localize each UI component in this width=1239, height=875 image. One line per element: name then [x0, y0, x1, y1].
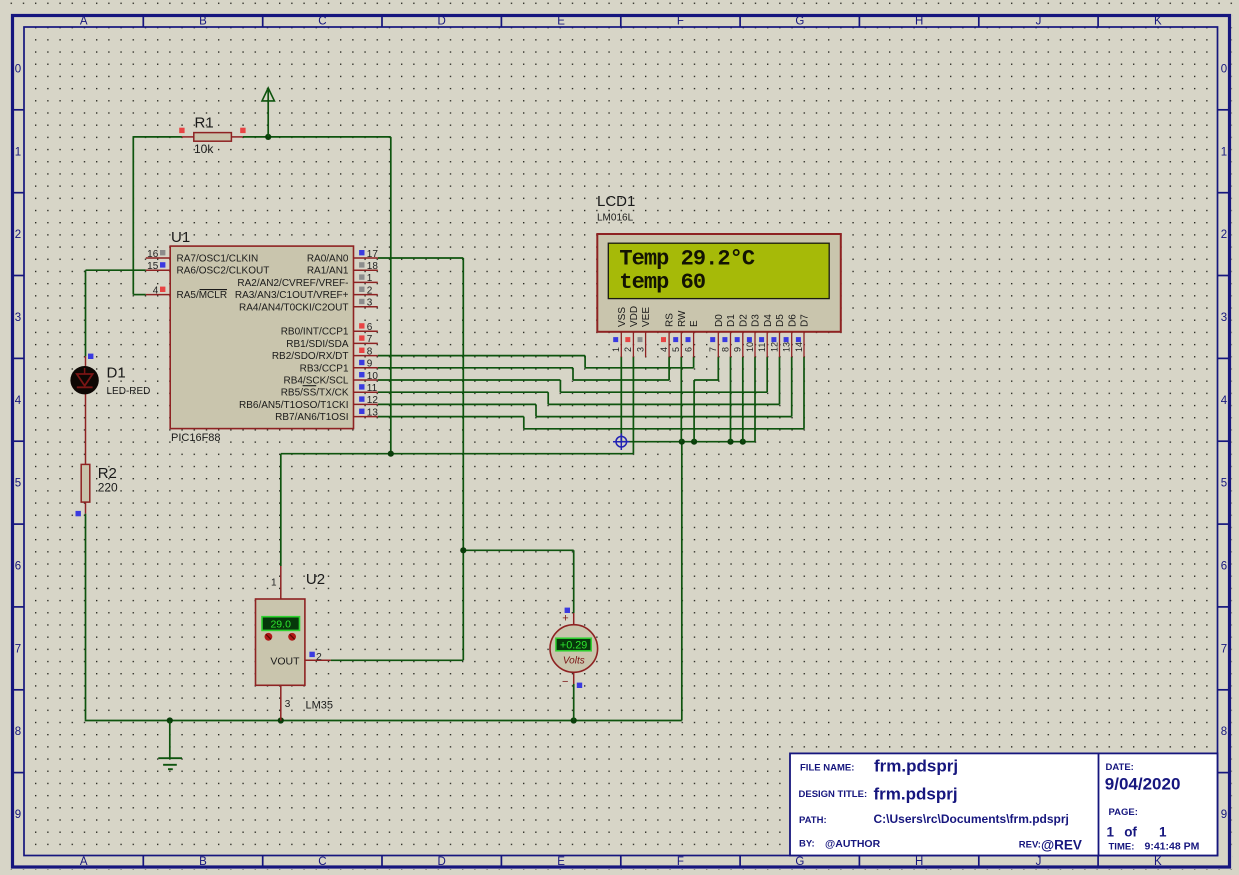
svg-text:1: 1 [367, 273, 373, 284]
svg-text:G: G [795, 856, 804, 868]
wire LCD D2 down [742, 357, 744, 442]
svg-text:6: 6 [683, 347, 693, 352]
svg-text:+: + [562, 613, 568, 625]
svg-text:FILE NAME:: FILE NAME: [800, 763, 854, 774]
svg-text:1: 1 [1159, 825, 1167, 840]
U2 pin 1 [271, 566, 281, 599]
LCD1 pin 12 D5 [769, 314, 786, 357]
wire R1 right to +5V rail corner [243, 136, 391, 138]
LCD1 pin 4 RS [659, 313, 676, 357]
U1 pin 17 [354, 249, 379, 260]
svg-text:220: 220 [98, 481, 118, 495]
svg-text:frm.pdsprj: frm.pdsprj [874, 785, 958, 804]
svg-text:B: B [199, 856, 207, 868]
U1 pin 7 [354, 334, 378, 345]
LCD1 pin 10 D3 [745, 314, 762, 357]
wire RB7 to LCD D7 [378, 357, 804, 429]
junction RA0 split to voltmeter [460, 547, 466, 553]
junction ground rail at U2 pin3 [278, 717, 284, 723]
junction power node at R1/power-pin [265, 134, 271, 140]
microcontroller U1 body [170, 246, 353, 429]
svg-text:4: 4 [153, 285, 159, 296]
svg-text:15: 15 [147, 261, 159, 272]
svg-text:10: 10 [367, 371, 379, 382]
svg-text:LM016L: LM016L [597, 213, 634, 224]
svg-text:C: C [318, 856, 326, 868]
junction LCD rail at RW riser [679, 439, 685, 445]
svg-text:D6: D6 [787, 314, 798, 327]
svg-text:9: 9 [1221, 809, 1227, 821]
svg-text:5: 5 [671, 347, 681, 352]
svg-text:8: 8 [367, 346, 373, 357]
svg-text:RB0/INT/CCP1: RB0/INT/CCP1 [281, 327, 349, 338]
svg-text:J: J [1036, 856, 1042, 868]
svg-text:B: B [199, 16, 207, 28]
svg-text:RA6/OSC2/CLKOUT: RA6/OSC2/CLKOUT [177, 266, 270, 277]
wire RA6 to D1 [86, 270, 146, 356]
svg-text:D: D [438, 856, 446, 868]
svg-text:8: 8 [720, 347, 730, 352]
ground symbol [158, 721, 182, 770]
svg-text:RA3/AN3/C1OUT/VREF+: RA3/AN3/C1OUT/VREF+ [235, 290, 349, 301]
svg-text:VEE: VEE [641, 307, 652, 327]
svg-text:VDD: VDD [629, 306, 640, 327]
svg-text:RA1/AN1: RA1/AN1 [307, 266, 349, 277]
wire voltmeter minus to ground rail [573, 684, 575, 721]
svg-text:frm.pdsprj: frm.pdsprj [874, 757, 958, 776]
svg-text:A: A [80, 856, 88, 868]
svg-text:RW: RW [677, 310, 688, 327]
svg-text:LED-RED: LED-RED [107, 386, 151, 397]
LCD1 pin 9 D2 [733, 314, 750, 357]
svg-text:11: 11 [367, 383, 378, 394]
svg-text:RB6/AN5/T1OSO/T1CKI: RB6/AN5/T1OSO/T1CKI [239, 400, 348, 411]
svg-text:D5: D5 [775, 314, 786, 327]
svg-text:RA5/MCLR: RA5/MCLR [177, 290, 228, 301]
U1 pin 3 [354, 298, 378, 309]
svg-text:4: 4 [659, 347, 669, 352]
svg-text:6: 6 [1221, 561, 1227, 573]
svg-text:R1: R1 [195, 115, 214, 132]
svg-text:RB7/AN6/T1OSI: RB7/AN6/T1OSI [275, 412, 348, 423]
svg-text:8: 8 [15, 726, 21, 738]
voltmeter probe [550, 608, 598, 688]
svg-text:LCD1: LCD1 [597, 193, 635, 210]
svg-text:1: 1 [1221, 146, 1227, 158]
svg-text:1: 1 [15, 146, 21, 158]
svg-text:12: 12 [367, 395, 379, 406]
svg-text:K: K [1154, 856, 1162, 868]
svg-text:D1: D1 [726, 314, 737, 327]
U1 pin 11 [354, 383, 378, 394]
svg-text:R2: R2 [98, 465, 117, 482]
U2 pin 3 [281, 685, 291, 720]
svg-text:2: 2 [367, 285, 373, 296]
svg-text:of: of [1124, 825, 1137, 840]
LCD1 pin 11 D4 [757, 314, 774, 357]
svg-text:1: 1 [1107, 825, 1115, 840]
wire RB3 to LCD RS [378, 357, 669, 380]
svg-text:DATE:: DATE: [1106, 762, 1134, 773]
U1 pin 9 [354, 359, 378, 370]
svg-text:F: F [677, 856, 684, 868]
svg-text:VOUT: VOUT [270, 655, 300, 667]
svg-text:D4: D4 [763, 314, 774, 327]
svg-text:RS: RS [665, 313, 676, 327]
svg-text:REV:: REV: [1019, 840, 1041, 851]
junction LCD rail at D1 [727, 439, 733, 445]
svg-text:18: 18 [367, 261, 379, 272]
svg-text:5: 5 [15, 478, 21, 490]
svg-text:9: 9 [733, 347, 743, 352]
svg-text:C:\Users\rc\Documents\frm.pdsp: C:\Users\rc\Documents\frm.pdsprj [874, 812, 1069, 826]
svg-text:9:41:48 PM: 9:41:48 PM [1145, 841, 1200, 853]
svg-text:+0.29: +0.29 [560, 639, 587, 651]
LCD1 pin 5 RW [671, 310, 688, 357]
LCD1 pin 7 D0 [708, 314, 725, 357]
svg-text:RB5/SS/TX/CK: RB5/SS/TX/CK [281, 388, 349, 399]
LCD1 pin 14 D7 [794, 314, 811, 357]
U1 pin names left side [177, 254, 270, 302]
resistor R2 [76, 394, 90, 516]
wire ground riser to LCD rail [681, 442, 683, 721]
LCD1 pin 3 VEE [635, 307, 652, 358]
svg-text:RA2/AN2/CVREF/VREF-: RA2/AN2/CVREF/VREF- [237, 278, 348, 289]
svg-text:2: 2 [1221, 229, 1227, 241]
U1 pin 6 [354, 322, 378, 333]
wire RA0 to LM35 VOUT and voltmeter [331, 258, 574, 660]
svg-text:2: 2 [316, 651, 322, 663]
svg-text:3: 3 [367, 298, 373, 309]
svg-text:C: C [318, 16, 326, 28]
svg-text:17: 17 [367, 249, 379, 260]
svg-text:6: 6 [367, 322, 373, 333]
svg-text:DESIGN TITLE:: DESIGN TITLE: [799, 789, 868, 800]
svg-text:PIC16F88: PIC16F88 [171, 432, 221, 444]
svg-text:BY:: BY: [799, 839, 815, 850]
LCD display LCD1 body [597, 234, 841, 332]
svg-text:PAGE:: PAGE: [1109, 807, 1138, 818]
U1 pin 13 [354, 407, 379, 418]
svg-text:16: 16 [147, 249, 159, 260]
svg-text:10k: 10k [194, 142, 214, 156]
junction ground rail at voltmeter [571, 717, 577, 723]
svg-text:F: F [677, 16, 684, 28]
junction ground rail at GND symbol [167, 717, 173, 723]
svg-text:D: D [438, 16, 446, 28]
svg-text:8: 8 [1221, 726, 1227, 738]
svg-text:6: 6 [15, 561, 21, 573]
svg-text:LM35: LM35 [306, 700, 334, 712]
svg-text:D3: D3 [751, 314, 762, 327]
LCD1 pin 8 D1 [720, 314, 737, 357]
LCD1 pin 1 VSS [611, 307, 628, 358]
resistor R1 [179, 128, 245, 142]
svg-text:4: 4 [1221, 395, 1228, 407]
wire RB2 to LCD E [378, 356, 694, 368]
svg-text:13: 13 [782, 342, 792, 352]
svg-text:3: 3 [15, 312, 21, 324]
wire RB5 to LCD D5 [378, 357, 780, 405]
svg-text:U2: U2 [306, 571, 325, 588]
svg-text:2: 2 [623, 347, 633, 352]
wire LCD D0 to ground rail [694, 357, 719, 442]
svg-text:K: K [1154, 16, 1162, 28]
svg-text:7: 7 [708, 347, 718, 352]
svg-text:RB3/CCP1: RB3/CCP1 [300, 363, 349, 374]
svg-text:temp 60: temp 60 [619, 270, 705, 295]
U1 pin 12 [354, 395, 379, 406]
svg-text:1: 1 [611, 347, 621, 352]
svg-text:7: 7 [367, 334, 373, 345]
svg-text:0: 0 [1221, 63, 1227, 75]
svg-text:D2: D2 [738, 314, 749, 327]
svg-text:0: 0 [15, 63, 21, 75]
svg-text:H: H [915, 16, 923, 28]
svg-text:RB4/SCK/SCL: RB4/SCK/SCL [283, 376, 348, 387]
svg-text:9/04/2020: 9/04/2020 [1105, 775, 1181, 794]
svg-text:PATH:: PATH: [799, 815, 827, 826]
wire RB4 to LCD D4 [378, 357, 767, 393]
LCD1 pin 13 D6 [782, 314, 799, 357]
svg-text:7: 7 [1221, 643, 1227, 655]
svg-text:J: J [1036, 16, 1042, 28]
svg-text:9: 9 [15, 809, 21, 821]
svg-text:D1: D1 [107, 365, 126, 382]
LCD1 pin 2 VDD [623, 306, 640, 357]
svg-text:7: 7 [15, 643, 21, 655]
U1 pin 4 [146, 285, 170, 296]
U1 pin 18 [354, 261, 379, 272]
svg-text:1: 1 [271, 578, 277, 589]
wire R1 left to MCLR vertical [133, 136, 182, 295]
junction LCD rail at D0 branch [691, 439, 697, 445]
wire RB6 to LCD D6 [378, 357, 792, 417]
svg-text:D7: D7 [800, 314, 811, 327]
U1 pin 2 [354, 285, 378, 296]
svg-text:H: H [915, 856, 923, 868]
junction VDD at +5V vertical [388, 451, 394, 457]
svg-text:RA4/AN4/T0CKI/C2OUT: RA4/AN4/T0CKI/C2OUT [239, 302, 348, 313]
svg-text:G: G [795, 16, 804, 28]
U1 pin 15 [146, 261, 170, 272]
svg-text:RA0/AN0: RA0/AN0 [307, 254, 349, 265]
svg-text:12: 12 [769, 342, 779, 352]
LCD1 pin 6 E [683, 320, 700, 357]
wire RA5/MCLR stub from vertical [133, 294, 146, 296]
svg-text:−: − [562, 676, 568, 688]
U1 pin 16 [146, 249, 170, 260]
svg-text:RB1/SDI/SDA: RB1/SDI/SDA [286, 339, 349, 350]
svg-text:4: 4 [15, 395, 22, 407]
svg-text:D0: D0 [714, 314, 725, 327]
U1 pin 10 [354, 371, 379, 382]
svg-text:3: 3 [285, 699, 291, 710]
svg-text:Volts: Volts [563, 655, 585, 666]
U1 pin names right side [235, 254, 349, 424]
svg-text:Temp 29.2°C: Temp 29.2°C [619, 246, 755, 271]
svg-text:29.0: 29.0 [270, 619, 291, 631]
wire R2 bottom to ground rail [85, 514, 682, 721]
svg-text:5: 5 [1221, 478, 1227, 490]
svg-text:2: 2 [15, 229, 21, 241]
title block [790, 753, 1218, 855]
svg-text:14: 14 [794, 342, 804, 352]
svg-text:3: 3 [1221, 312, 1227, 324]
U1 pin 8 [354, 346, 378, 357]
U1 pin 1 [354, 273, 378, 284]
wire LCD D1 down [730, 357, 732, 442]
svg-text:RA7/OSC1/CLKIN: RA7/OSC1/CLKIN [177, 254, 259, 265]
svg-text:@AUTHOR: @AUTHOR [825, 838, 881, 850]
svg-text:E: E [557, 16, 565, 28]
svg-text:RB2/SDO/RX/DT: RB2/SDO/RX/DT [272, 351, 349, 362]
svg-text:13: 13 [367, 407, 379, 418]
svg-text:U1: U1 [171, 229, 190, 246]
node origin marker at VSS ground corner [613, 433, 630, 450]
U2 pin 2 VOUT [305, 651, 331, 663]
junction LCD rail at D2 [740, 439, 746, 445]
svg-text:VSS: VSS [617, 307, 628, 327]
svg-text:@REV: @REV [1041, 838, 1082, 853]
power terminal +5V arrow [262, 88, 274, 137]
wire LCD RW down [680, 357, 682, 442]
temperature sensor U2 body [256, 599, 305, 685]
svg-text:E: E [689, 320, 700, 327]
wire VDD net: LCD pin2 to +5V and U2 pin1 [281, 357, 634, 566]
wire +5V vertical down to VDD rail [390, 137, 392, 454]
svg-text:E: E [557, 856, 565, 868]
svg-text:3: 3 [635, 347, 645, 352]
wire LCD ground rail VSS to D3 [621, 357, 755, 442]
svg-text:11: 11 [757, 343, 767, 352]
svg-text:A: A [80, 16, 88, 28]
svg-text:TIME:: TIME: [1109, 842, 1135, 853]
svg-text:9: 9 [367, 359, 373, 370]
svg-text:10: 10 [745, 342, 755, 352]
LED D1 [70, 354, 98, 395]
